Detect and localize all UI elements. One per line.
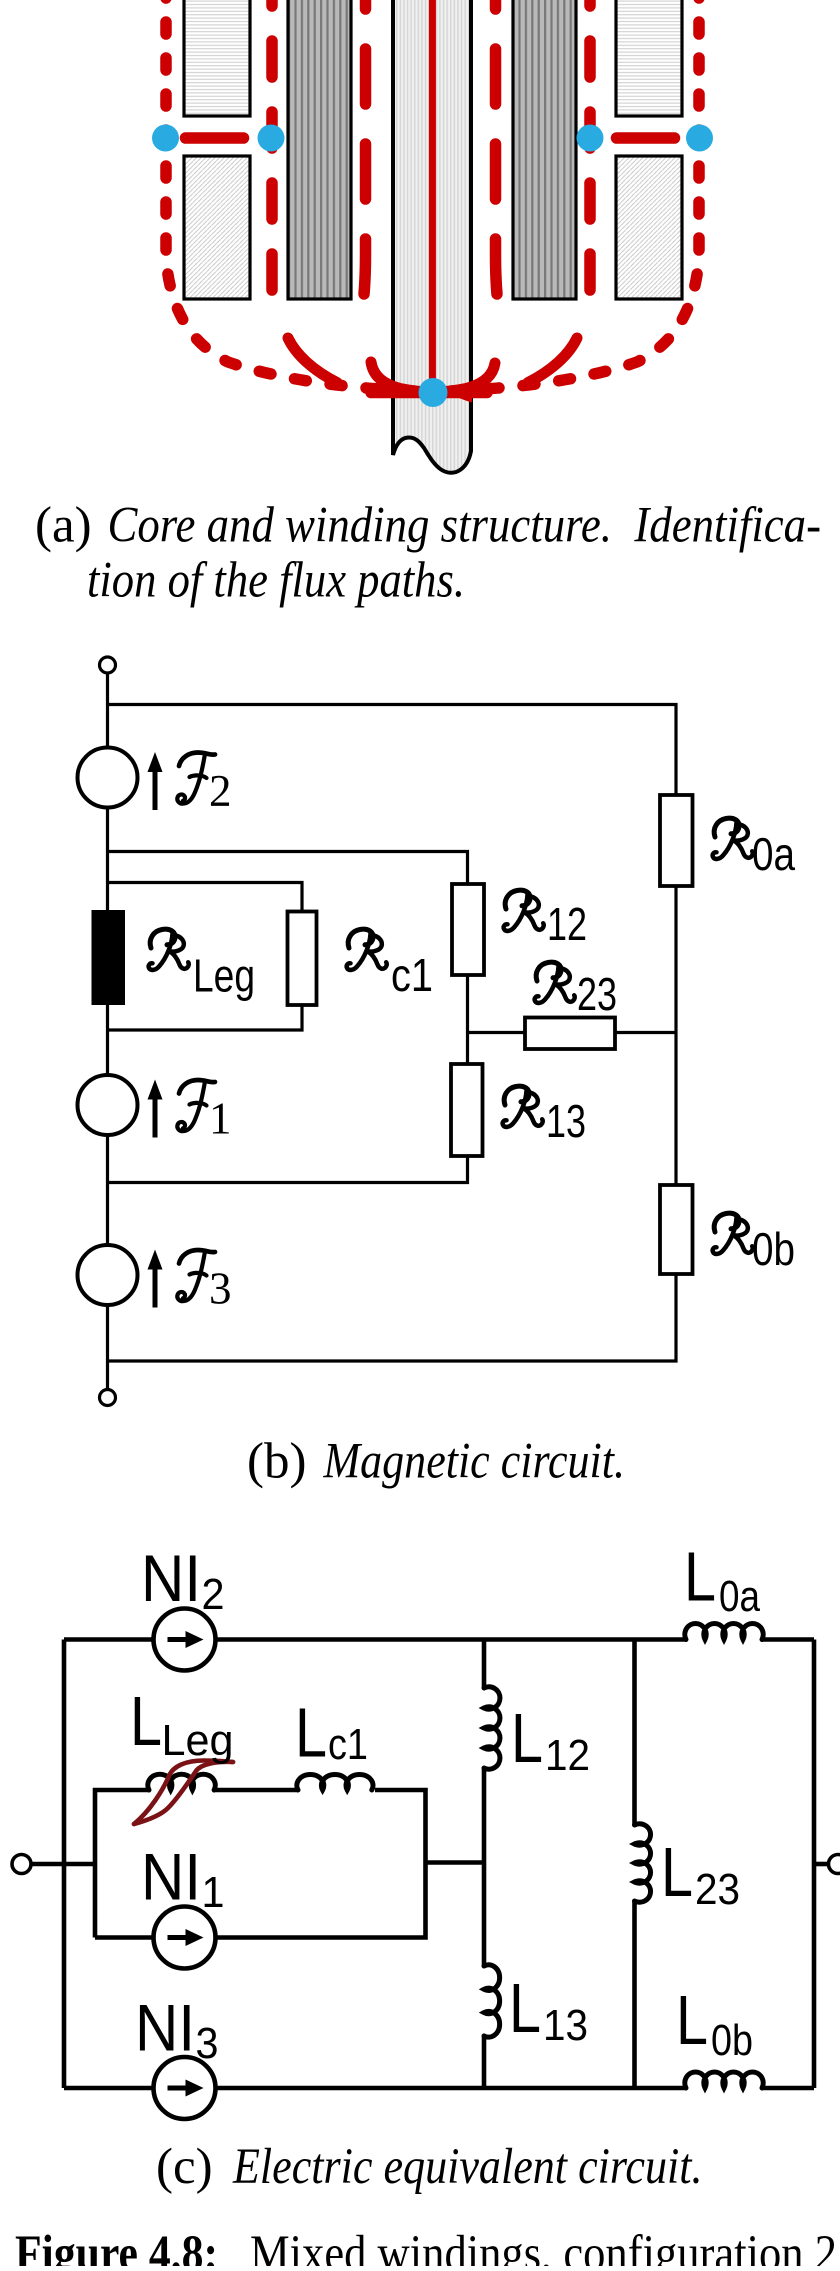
svg-text:23: 23 (577, 968, 617, 1020)
svg-text:Figure 4.8:: Figure 4.8: (15, 2226, 218, 2266)
svg-text:3: 3 (196, 2019, 219, 2068)
svg-text:c1: c1 (328, 1720, 368, 1769)
svg-text:L: L (130, 1682, 162, 1760)
svg-text:(a): (a) (35, 498, 92, 554)
svg-text:Mixed windings, configuration: Mixed windings, configuration 2 (250, 2226, 837, 2266)
svg-text:12: 12 (547, 898, 587, 950)
svg-text:1: 1 (209, 1094, 232, 1144)
svg-text:23: 23 (695, 1865, 740, 1914)
svg-text:13: 13 (546, 1095, 586, 1147)
svg-text:0a: 0a (752, 828, 795, 880)
svg-text:2: 2 (202, 1570, 225, 1619)
svg-text:L: L (684, 1538, 716, 1616)
svg-text:(b): (b) (247, 1434, 306, 1490)
svg-text:L: L (509, 1969, 541, 2047)
svg-text:c1: c1 (391, 949, 433, 1001)
svg-text:NI: NI (135, 1991, 195, 2065)
svg-text:L: L (676, 1981, 708, 2059)
svg-text:Electric equivalent circuit.: Electric equivalent circuit. (232, 2139, 702, 2195)
svg-text:0b: 0b (752, 1223, 795, 1275)
svg-text:3: 3 (209, 1264, 232, 1314)
svg-text:NI: NI (141, 1840, 201, 1914)
svg-text:L: L (661, 1833, 693, 1911)
svg-text:2: 2 (209, 766, 232, 816)
svg-text:0b: 0b (711, 2016, 753, 2065)
svg-text:1: 1 (202, 1868, 225, 1917)
svg-text:Magnetic circuit.: Magnetic circuit. (323, 1434, 625, 1490)
svg-text:0a: 0a (719, 1572, 760, 1621)
svg-text:Leg: Leg (162, 1716, 234, 1765)
svg-text:(c): (c) (156, 2139, 213, 2195)
svg-text:NI: NI (141, 1541, 201, 1615)
svg-text:Core and winding structure. I: Core and winding structure. Identifica- (108, 498, 822, 554)
svg-text:L: L (295, 1694, 327, 1772)
svg-text:Leg: Leg (193, 950, 255, 1002)
svg-text:L: L (511, 1699, 543, 1777)
svg-text:12: 12 (545, 1731, 590, 1780)
svg-text:tion of the flux paths.: tion of the flux paths. (87, 553, 465, 609)
svg-text:13: 13 (543, 2001, 588, 2050)
